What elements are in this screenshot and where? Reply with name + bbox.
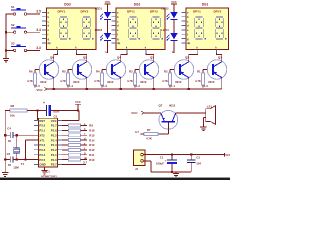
power VCC mcu [75, 100, 81, 110]
junction S2 [5, 31, 7, 33]
resistor R13 [62, 142, 95, 147]
svg-text:LED4: LED4 [161, 28, 169, 32]
transistor Q3 9012 [139, 55, 159, 83]
svg-text:LED2: LED2 [161, 7, 169, 11]
junction xt1 riser [24, 159, 26, 161]
svg-text:DG2: DG2 [134, 3, 141, 7]
svg-text:100uF: 100uF [156, 161, 164, 165]
wire xt1 [26, 140, 39, 160]
wire display common to transistor [76, 53, 87, 62]
net label 3.7 [135, 130, 139, 134]
wire left gnd rail [4, 110, 6, 172]
svg-text:30: 30 [8, 163, 12, 167]
svg-text:R6: R6 [29, 69, 33, 73]
wire Q6 emitter [53, 77, 55, 89]
svg-text:12M: 12M [13, 165, 19, 169]
wire button common vertical [5, 14, 7, 58]
wire VCC rail [47, 88, 222, 90]
svg-text:4.7K: 4.7K [60, 79, 66, 83]
led LED1 [95, 7, 111, 20]
svg-text:9012: 9012 [40, 80, 47, 84]
svg-text:DPY1: DPY1 [193, 9, 201, 13]
svg-text:C5: C5 [7, 152, 11, 156]
resistor R8 10k [10, 104, 27, 118]
junction c4 [4, 134, 6, 136]
wire P3.7 net [62, 161, 88, 165]
wire Q5 collector [86, 55, 88, 62]
svg-text:9012: 9012 [208, 80, 215, 84]
resistor R1 4.7K [195, 69, 204, 85]
mcu IC1 AT89C2051 [34, 118, 62, 167]
svg-text:C1: C1 [160, 156, 164, 160]
svg-text:1.4: 1.4 [69, 84, 73, 88]
svg-text:4.7K: 4.7K [127, 79, 133, 83]
wire display common to transistor [53, 53, 58, 62]
junction rail [53, 88, 55, 90]
svg-text:R13: R13 [89, 143, 95, 147]
svg-text:R16: R16 [89, 129, 95, 133]
resistor R7 4.7K [144, 128, 158, 140]
junction rail [86, 88, 88, 90]
wire S2 left pin [6, 31, 13, 33]
wire Q1 emitter [221, 77, 223, 89]
ground power [173, 172, 179, 177]
junction vcc sym [77, 109, 79, 111]
svg-text:9012: 9012 [169, 103, 176, 107]
svg-text:R12: R12 [89, 148, 95, 152]
wire S2 to net 3.4 [27, 31, 40, 33]
power VCC led column [104, 0, 110, 4]
display DG3 [42, 3, 96, 53]
junction S3 [5, 49, 7, 51]
transistor Q1 9012 [207, 55, 227, 83]
ground buttons [3, 59, 9, 63]
svg-text:f: f [187, 32, 188, 36]
wire Q2 emitter [188, 77, 190, 89]
power port VCC buzzer [131, 111, 143, 115]
junction crystal top [16, 134, 18, 136]
svg-text:DG1: DG1 [202, 3, 209, 7]
svg-text:RST: RST [39, 119, 45, 123]
wire vcc to Q7 [143, 112, 161, 114]
svg-text:P1.5: P1.5 [51, 133, 57, 137]
sheet border [0, 177, 230, 180]
resistor R2 4.7K [162, 69, 171, 85]
svg-text:LED3: LED3 [95, 28, 103, 32]
svg-text:P1.3: P1.3 [51, 143, 57, 147]
connector J1 [134, 150, 146, 171]
svg-text:dp: dp [117, 41, 121, 45]
net label 1.4 [69, 84, 73, 88]
capacitor C5 30 [7, 152, 13, 167]
svg-text:T1: T1 [21, 162, 25, 166]
net label 3.5 [36, 10, 41, 14]
svg-text:R15: R15 [89, 133, 95, 137]
resistor R6 4.7K [27, 69, 36, 85]
svg-text:P3.1: P3.1 [39, 129, 45, 133]
svg-text:LED1: LED1 [95, 7, 103, 11]
svg-text:R8: R8 [11, 104, 15, 108]
svg-text:dp: dp [187, 41, 191, 45]
wire R5 bottom [67, 85, 69, 88]
led LED4 [161, 28, 177, 41]
wire Q3 collector [153, 55, 155, 62]
svg-text:P1.0: P1.0 [51, 158, 57, 162]
svg-text:4.7K: 4.7K [94, 79, 100, 83]
wire S1 to net 3.5 [27, 13, 40, 15]
svg-text:P3.7: P3.7 [51, 163, 57, 167]
svg-text:R3: R3 [129, 69, 133, 73]
svg-text:3.7: 3.7 [83, 161, 87, 165]
net label 1.5 [36, 84, 40, 88]
wire Q1 collector [221, 55, 223, 62]
wire Q6 collector [53, 55, 55, 62]
led LED3 [95, 28, 111, 41]
svg-text:P1.2: P1.2 [51, 148, 57, 152]
svg-text:R1: R1 [197, 69, 201, 73]
svg-text:P1.6: P1.6 [51, 129, 57, 133]
svg-text:+: + [43, 101, 45, 105]
wire to RST pin [37, 110, 39, 120]
power port VCC right [224, 153, 231, 157]
svg-text:VCC: VCC [51, 119, 57, 123]
svg-text:f: f [117, 32, 118, 36]
ground speaker [200, 127, 206, 131]
resistor R9 [62, 123, 94, 128]
ground mcu [41, 170, 47, 174]
wire S3 left pin [6, 49, 13, 51]
junction RST [36, 109, 38, 111]
wire Q3 emitter [153, 77, 155, 89]
wire between leds [107, 20, 109, 33]
wire R6 bottom [34, 85, 36, 88]
wire Q5 base [68, 70, 72, 74]
transistor Q2 9012 [174, 55, 194, 83]
pushbutton S2 [11, 23, 27, 33]
svg-text:9012: 9012 [73, 80, 80, 84]
svg-text:R4: R4 [96, 69, 100, 73]
wire S1 left pin [6, 13, 13, 15]
svg-text:DPY1: DPY1 [127, 9, 135, 13]
pushbutton S1 [11, 5, 27, 15]
wire display common to transistor [216, 53, 222, 62]
svg-text:9012: 9012 [107, 80, 114, 84]
resistor R3 4.7K [127, 69, 136, 85]
speaker LS1 [206, 105, 216, 125]
svg-text:1.2: 1.2 [136, 84, 140, 88]
svg-text:9012: 9012 [175, 80, 182, 84]
wire xt2 [5, 134, 38, 136]
capacitor C3 10uF [43, 101, 60, 119]
wire display common to transistor [188, 53, 198, 62]
svg-text:R11: R11 [89, 153, 94, 157]
net label 3.4 [36, 28, 41, 32]
wire Q2 collector [188, 55, 190, 62]
resistor R11 [62, 152, 95, 157]
svg-text:P1.4: P1.4 [51, 138, 57, 142]
net label 1.1 [171, 84, 175, 88]
wire between leds [173, 20, 175, 33]
svg-text:+: + [165, 158, 167, 162]
capacitor C2 104 [187, 155, 202, 172]
svg-text:4.7K: 4.7K [195, 79, 201, 83]
svg-text:XT1: XT1 [39, 138, 45, 142]
led LED2 [161, 7, 177, 20]
svg-text:J1: J1 [135, 167, 139, 171]
wire J1 pin1 vcc [143, 154, 224, 156]
wire R4 bottom [101, 85, 103, 88]
label AT89C2051 [41, 174, 57, 178]
svg-text:3.4: 3.4 [36, 28, 41, 32]
net label led column [172, 51, 174, 54]
svg-text:30: 30 [8, 139, 12, 143]
svg-text:VCC: VCC [131, 111, 138, 115]
svg-text:XT2: XT2 [39, 133, 45, 137]
svg-text:VCC: VCC [36, 88, 43, 92]
wire speaker gnd [203, 118, 205, 127]
svg-text:R7: R7 [147, 128, 151, 132]
svg-text:P1.7: P1.7 [51, 124, 57, 128]
junction c5 [4, 159, 6, 161]
junction crystal bottom [16, 159, 18, 161]
transistor Q7 9012 [159, 103, 178, 129]
svg-text:P3.3: P3.3 [39, 148, 45, 152]
display DG1 [182, 3, 229, 53]
svg-text:P1.1: P1.1 [51, 153, 57, 157]
svg-text:P3.0: P3.0 [39, 124, 45, 128]
svg-text:1.1: 1.1 [171, 84, 175, 88]
junction gnd bottom [171, 171, 173, 173]
wire vcc to led [173, 4, 175, 12]
wire Q5 emitter [86, 77, 88, 89]
svg-text:VCC: VCC [171, 0, 177, 4]
wire gnd pin [5, 159, 38, 161]
wire vcc to led [107, 4, 109, 12]
svg-text:3.5: 3.5 [36, 10, 41, 14]
transistor Q5 9012 [72, 55, 92, 83]
svg-text:VCC: VCC [105, 0, 111, 4]
svg-text:dp: dp [48, 41, 52, 45]
svg-text:1.0: 1.0 [204, 84, 208, 88]
junction C1 top [171, 154, 173, 156]
wire R1 bottom [202, 85, 204, 88]
wire R7 left [141, 133, 145, 135]
svg-text:R10: R10 [89, 158, 95, 162]
wire Q2 base [170, 70, 174, 74]
wire Q7 base [158, 123, 168, 134]
svg-text:C4: C4 [7, 127, 11, 131]
svg-text:P3.5: P3.5 [39, 158, 45, 162]
wire Q4 emitter [120, 77, 122, 89]
svg-text:P3.4: P3.4 [39, 153, 45, 157]
resistor R15 [62, 133, 95, 138]
svg-text:4.7K: 4.7K [162, 79, 168, 83]
wire display common to transistor [146, 53, 155, 62]
svg-text:R2: R2 [164, 69, 168, 73]
resistor R14 [62, 138, 95, 143]
wire mcu gnd stub [44, 167, 46, 170]
ground left rail [2, 173, 8, 177]
resistor R4 4.7K [94, 69, 103, 85]
transistor Q4 9012 [106, 55, 126, 83]
junction rail [188, 88, 190, 90]
power port VCC rail left [36, 87, 46, 92]
svg-text:3.7: 3.7 [135, 130, 139, 134]
svg-text:104: 104 [196, 161, 201, 165]
junction rail [153, 88, 155, 90]
svg-text:4.7K: 4.7K [146, 136, 152, 140]
net label 1.0 [204, 84, 208, 88]
net label 1.2 [136, 84, 140, 88]
wire R2 bottom [169, 85, 171, 88]
svg-text:S1: S1 [11, 5, 15, 9]
wire J1 pin2 down [143, 161, 191, 172]
svg-text:R14: R14 [89, 138, 95, 142]
capacitor C1 100uF [156, 155, 177, 172]
wire led cathode down [107, 41, 109, 53]
svg-text:P3.2: P3.2 [39, 143, 45, 147]
svg-text:3.3: 3.3 [36, 46, 41, 50]
wire R3 bottom [134, 85, 136, 88]
net label led column [106, 51, 108, 54]
resistor R5 4.7K [60, 69, 69, 85]
svg-text:C2: C2 [196, 156, 200, 160]
wire Q1 base [203, 70, 207, 74]
svg-text:VCC: VCC [75, 100, 81, 104]
power VCC led column [171, 0, 177, 4]
wire C3 to VCC corner [51, 110, 79, 120]
svg-text:10k: 10k [10, 114, 15, 118]
svg-text:1.3: 1.3 [103, 84, 107, 88]
wire S3 to net 3.3 [27, 49, 40, 51]
net label 1.3 [103, 84, 107, 88]
wire R8 left to rail [5, 109, 10, 111]
wire Q4 collector [120, 55, 122, 62]
wire Q7 collector to speaker [176, 112, 206, 114]
wire Q6 base [35, 70, 39, 74]
wire led cathode down [173, 41, 175, 53]
wire R8 right to cap [27, 109, 46, 111]
resistor R12 [62, 147, 95, 152]
resistor R10 [62, 157, 95, 162]
pushbutton S3 [11, 41, 27, 51]
wire Q3 base [135, 70, 139, 74]
label IC1 [46, 170, 51, 174]
junction rail [120, 88, 122, 90]
junction C2 top [190, 154, 192, 156]
capacitor C4 30 [7, 127, 13, 144]
svg-text:GND: GND [39, 163, 45, 167]
crystal T1 12M [13, 135, 24, 169]
svg-text:DPY2: DPY2 [150, 9, 158, 13]
svg-text:DPY2: DPY2 [214, 9, 222, 13]
svg-text:9012: 9012 [140, 80, 147, 84]
svg-text:S2: S2 [11, 23, 15, 27]
svg-text:DPY1: DPY1 [58, 9, 66, 13]
svg-text:DPY2: DPY2 [81, 9, 89, 13]
resistor R16 [62, 128, 95, 133]
display DG2 [112, 3, 166, 53]
svg-text:f: f [48, 32, 49, 36]
svg-text:4.7K: 4.7K [27, 79, 33, 83]
transistor Q6 9012 [39, 55, 59, 83]
svg-text:S3: S3 [11, 41, 15, 45]
net label 3.3 [36, 46, 41, 50]
wire Q4 base [102, 70, 106, 74]
wire display common to transistor [120, 53, 127, 62]
svg-text:R9: R9 [89, 124, 93, 128]
svg-text:DG3: DG3 [64, 3, 71, 7]
svg-text:VCC: VCC [225, 153, 230, 157]
svg-text:R5: R5 [62, 69, 66, 73]
svg-text:Q7: Q7 [159, 103, 163, 107]
